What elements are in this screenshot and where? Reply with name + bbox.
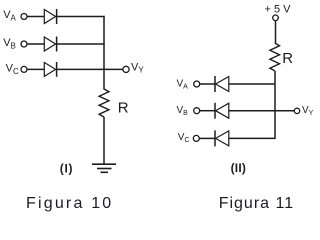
node VB label (fig II)	[177, 105, 189, 117]
diode D5 (fig II row B)	[215, 103, 229, 119]
node VA label (fig I)	[3, 9, 16, 22]
wire D2 cathode to bus	[57, 43, 105, 45]
terminal VY (fig I)	[123, 66, 129, 72]
wire D6 anode to bus	[229, 137, 275, 139]
caption Figura 11	[219, 195, 294, 212]
diode D2 (fig I row B)	[44, 37, 56, 52]
wire VC terminal to diode D3	[27, 68, 45, 70]
wire VC terminal to diode D6	[199, 137, 215, 139]
wire resistor to ground (fig I)	[103, 117, 105, 164]
node VY label (fig II)	[302, 105, 314, 117]
svg-text:(I): (I)	[60, 161, 73, 175]
wire VB terminal to diode D5	[200, 110, 215, 112]
label (I)	[60, 161, 73, 175]
wire VA terminal to diode D4	[200, 83, 215, 85]
wire node to VY terminal (fig I)	[104, 68, 123, 70]
terminal VY (fig II)	[294, 108, 299, 113]
wire VA terminal to diode D1	[27, 16, 45, 18]
svg-text:Figura 11: Figura 11	[219, 195, 294, 212]
diode D6 (fig II row C)	[215, 130, 229, 146]
wire D3 cathode to output node	[57, 68, 104, 70]
wire D5 anode to bus and VY output	[229, 110, 294, 112]
ground (fig I)	[92, 164, 116, 172]
label R value (fig II)	[282, 50, 293, 67]
node VY label (fig I)	[131, 61, 144, 74]
wire D4 anode to bus	[229, 83, 275, 85]
terminal VA (fig II)	[194, 81, 200, 87]
diode D4 (fig II row A)	[215, 76, 229, 92]
resistor R (fig I)	[99, 89, 109, 117]
wire VB terminal to diode D2	[27, 43, 45, 45]
terminal VA (fig I)	[21, 14, 27, 20]
svg-text:R: R	[118, 99, 129, 116]
label (II)	[231, 161, 246, 175]
node VB label (fig I)	[3, 37, 16, 50]
svg-text:(II): (II)	[231, 161, 246, 175]
diode D1 (fig I row A)	[44, 9, 56, 24]
wire +5V terminal to resistor (fig II)	[275, 21, 277, 44]
bus wire (fig II vertical)	[274, 71, 276, 139]
svg-text:Figura 10: Figura 10	[26, 195, 113, 212]
terminal VC (fig I)	[21, 66, 27, 72]
label R value (fig I)	[118, 99, 129, 116]
terminal VB (fig II)	[194, 108, 200, 114]
node +5V label (fig II)	[265, 3, 292, 15]
terminal VC (fig II)	[193, 135, 199, 141]
svg-text:+ 5 V: + 5 V	[265, 3, 292, 15]
node VC label (fig I)	[6, 63, 19, 76]
terminal +5V (fig II)	[273, 15, 279, 21]
node VA label (fig II)	[177, 79, 189, 91]
svg-text:R: R	[282, 50, 293, 67]
terminal VB (fig I)	[21, 41, 27, 47]
resistor R (fig II)	[270, 43, 280, 71]
wire D1 cathode to bus	[57, 16, 105, 18]
diode D3 (fig I row C)	[44, 62, 56, 77]
node VC label (fig II)	[178, 132, 190, 144]
bus wire (fig I vertical)	[103, 16, 105, 90]
caption Figura 10	[26, 195, 113, 212]
